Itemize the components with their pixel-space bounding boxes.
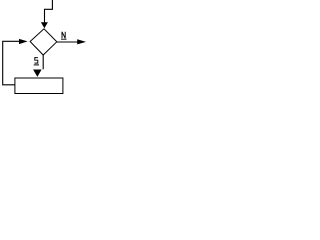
arrowhead into process box [33, 70, 42, 77]
decision diamond [30, 29, 57, 55]
loop wire from box left side, up and right [3, 41, 20, 85]
N wire to the right [57, 41, 78, 43]
underline of N [61, 38, 67, 40]
arrowhead into diamond left vertex [19, 39, 28, 44]
arrowhead N pointing right [77, 39, 86, 44]
label N (drawn as path) [62, 32, 65, 39]
arrowhead into diamond top vertex [41, 22, 48, 28]
process box [15, 78, 63, 94]
underline of S [34, 64, 39, 66]
label S (drawn as path) [35, 58, 38, 64]
S wire down from diamond [42, 55, 44, 69]
entry wire from top edge [45, 0, 53, 23]
